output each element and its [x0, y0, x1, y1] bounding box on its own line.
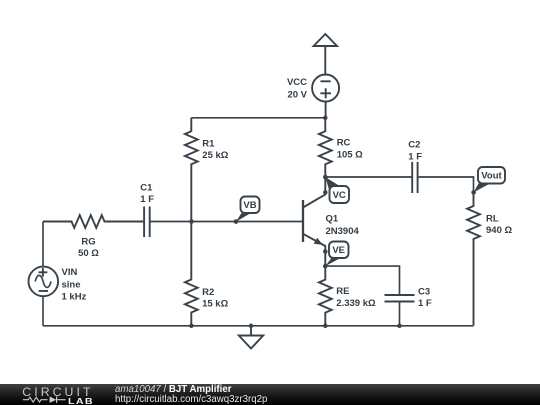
wire C1 right plate to VB node — [150, 221, 192, 223]
node VB junction — [189, 219, 194, 224]
node R2 bottom — [189, 324, 194, 329]
svg-text:1 F: 1 F — [140, 194, 154, 205]
capacitor C1 — [144, 207, 150, 238]
logo CIRCUIT — [22, 385, 93, 399]
transistor Q1 collector — [303, 177, 325, 208]
svg-text:2N3904: 2N3904 — [326, 226, 360, 237]
svg-text:1 kHz: 1 kHz — [62, 292, 87, 303]
svg-text:VCC: VCC — [287, 77, 307, 88]
resistor RC — [319, 118, 332, 177]
wire emitter node to C3 — [325, 266, 399, 295]
svg-text:VE: VE — [332, 245, 345, 256]
node Vout anchor — [471, 190, 476, 195]
node RE bottom — [323, 324, 328, 329]
power flag VCC arrow — [314, 34, 337, 75]
wire left column lower — [42, 296, 44, 326]
wire top rail R1 to VCC node — [191, 117, 325, 119]
node collector junction — [323, 175, 328, 180]
node top rail — [323, 116, 328, 121]
wire collector node to C2 — [325, 176, 412, 178]
svg-text:2.339 kΩ: 2.339 kΩ — [336, 298, 376, 309]
svg-text:RL: RL — [486, 213, 499, 224]
svg-text:50 Ω: 50 Ω — [78, 248, 99, 259]
svg-text:VB: VB — [243, 200, 256, 211]
node emitter junction — [323, 264, 328, 269]
wire C2 to Vout corner — [418, 177, 474, 193]
svg-text:RG: RG — [81, 236, 95, 247]
flag Vout — [474, 167, 505, 192]
svg-text:940 Ω: 940 Ω — [486, 225, 512, 236]
svg-text:VC: VC — [333, 190, 346, 201]
svg-text:R1: R1 — [202, 138, 215, 149]
wire bottom rail — [43, 325, 474, 327]
node collector terminal — [323, 190, 328, 195]
node C3 bottom — [397, 324, 402, 329]
svg-text:C3: C3 — [418, 287, 430, 298]
svg-text:R2: R2 — [202, 287, 214, 298]
capacitor C2 — [412, 162, 417, 193]
resistor R2 — [185, 222, 198, 326]
wire left column upper — [42, 222, 44, 267]
svg-text:1 F: 1 F — [408, 151, 422, 162]
logo symbol resistor-diode — [22, 395, 92, 405]
svg-text:15 kΩ: 15 kΩ — [202, 299, 228, 310]
svg-text:RE: RE — [336, 286, 349, 297]
wire base row node to Q1 base — [191, 221, 303, 223]
svg-text:sine: sine — [62, 279, 81, 290]
footer url — [115, 395, 267, 405]
svg-text:20 V: 20 V — [287, 89, 307, 100]
node emitter terminal — [323, 249, 328, 254]
resistor RE — [319, 266, 332, 326]
capacitor C3 — [385, 295, 415, 302]
transistor Q1 base bar — [302, 200, 304, 242]
svg-text:C2: C2 — [408, 140, 420, 151]
wire C3 bottom lead — [399, 302, 401, 326]
svg-text:Q1: Q1 — [326, 214, 339, 225]
resistor RL — [467, 193, 480, 326]
svg-text:C1: C1 — [140, 182, 153, 193]
resistor R1 — [185, 118, 198, 222]
transistor Q1 emitter arrowhead — [314, 238, 323, 245]
ground — [239, 326, 263, 349]
flag VE — [325, 242, 348, 267]
flag VC — [325, 177, 349, 203]
voltage source VCC — [312, 75, 339, 102]
node VB flag anchor — [234, 219, 239, 224]
svg-text:25 kΩ: 25 kΩ — [202, 150, 228, 161]
transistor Q1 emitter — [303, 234, 325, 266]
resistor RG — [43, 215, 143, 228]
footer bar — [0, 384, 540, 405]
svg-text:105 Ω: 105 Ω — [337, 149, 363, 160]
flag VB — [236, 197, 260, 222]
node ground junction — [249, 324, 254, 329]
svg-text:Vout: Vout — [481, 171, 502, 182]
svg-text:VIN: VIN — [62, 267, 78, 278]
footer title — [115, 385, 232, 395]
voltage source VIN — [29, 267, 59, 297]
svg-text:1 F: 1 F — [418, 298, 432, 309]
svg-text:RC: RC — [337, 138, 351, 149]
